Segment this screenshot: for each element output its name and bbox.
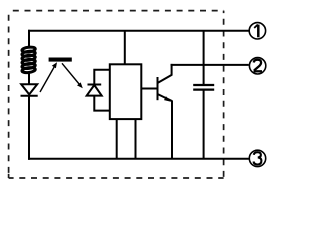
- wire: capacitor top lead: [203, 31, 205, 85]
- wire: bottom ground rail: [28, 158, 249, 160]
- wire: LED cathode to ground rail: [28, 96, 30, 160]
- terminal 2: [249, 58, 265, 74]
- light arrow emitted: [40, 62, 57, 92]
- wire: U1 ground pin left: [116, 119, 118, 159]
- wire: U1 ground pin right: [135, 119, 137, 159]
- coil L1 (filament): [22, 46, 36, 73]
- wire: pin 2 output line: [171, 64, 249, 66]
- transistor Q1: [158, 75, 173, 102]
- wire: photodiode cathode lead: [94, 70, 110, 85]
- LED D1 emitter diode: [21, 84, 38, 96]
- reflective target bar: [49, 58, 72, 62]
- wire: U1 Vcc pin: [124, 31, 126, 65]
- amplifier block U1: [110, 64, 142, 119]
- terminal 3: [249, 150, 265, 166]
- dashed package outline: [9, 11, 224, 178]
- terminal 1: [249, 23, 265, 39]
- wire: collector riser to pin 2: [171, 64, 173, 76]
- wire: photodiode anode lead: [94, 96, 110, 111]
- wire: emitter to ground rail: [171, 101, 173, 159]
- wire: base lead: [141, 88, 157, 90]
- capacitor C1: [193, 85, 214, 90]
- wire: capacitor bottom lead: [203, 90, 205, 159]
- wire: coil to LED lead: [28, 72, 30, 85]
- wire: top Vcc rail: [28, 30, 249, 32]
- wire: LED branch upper lead: [28, 30, 30, 47]
- photodiode D2: [87, 85, 102, 96]
- light arrow reflected: [62, 63, 83, 88]
